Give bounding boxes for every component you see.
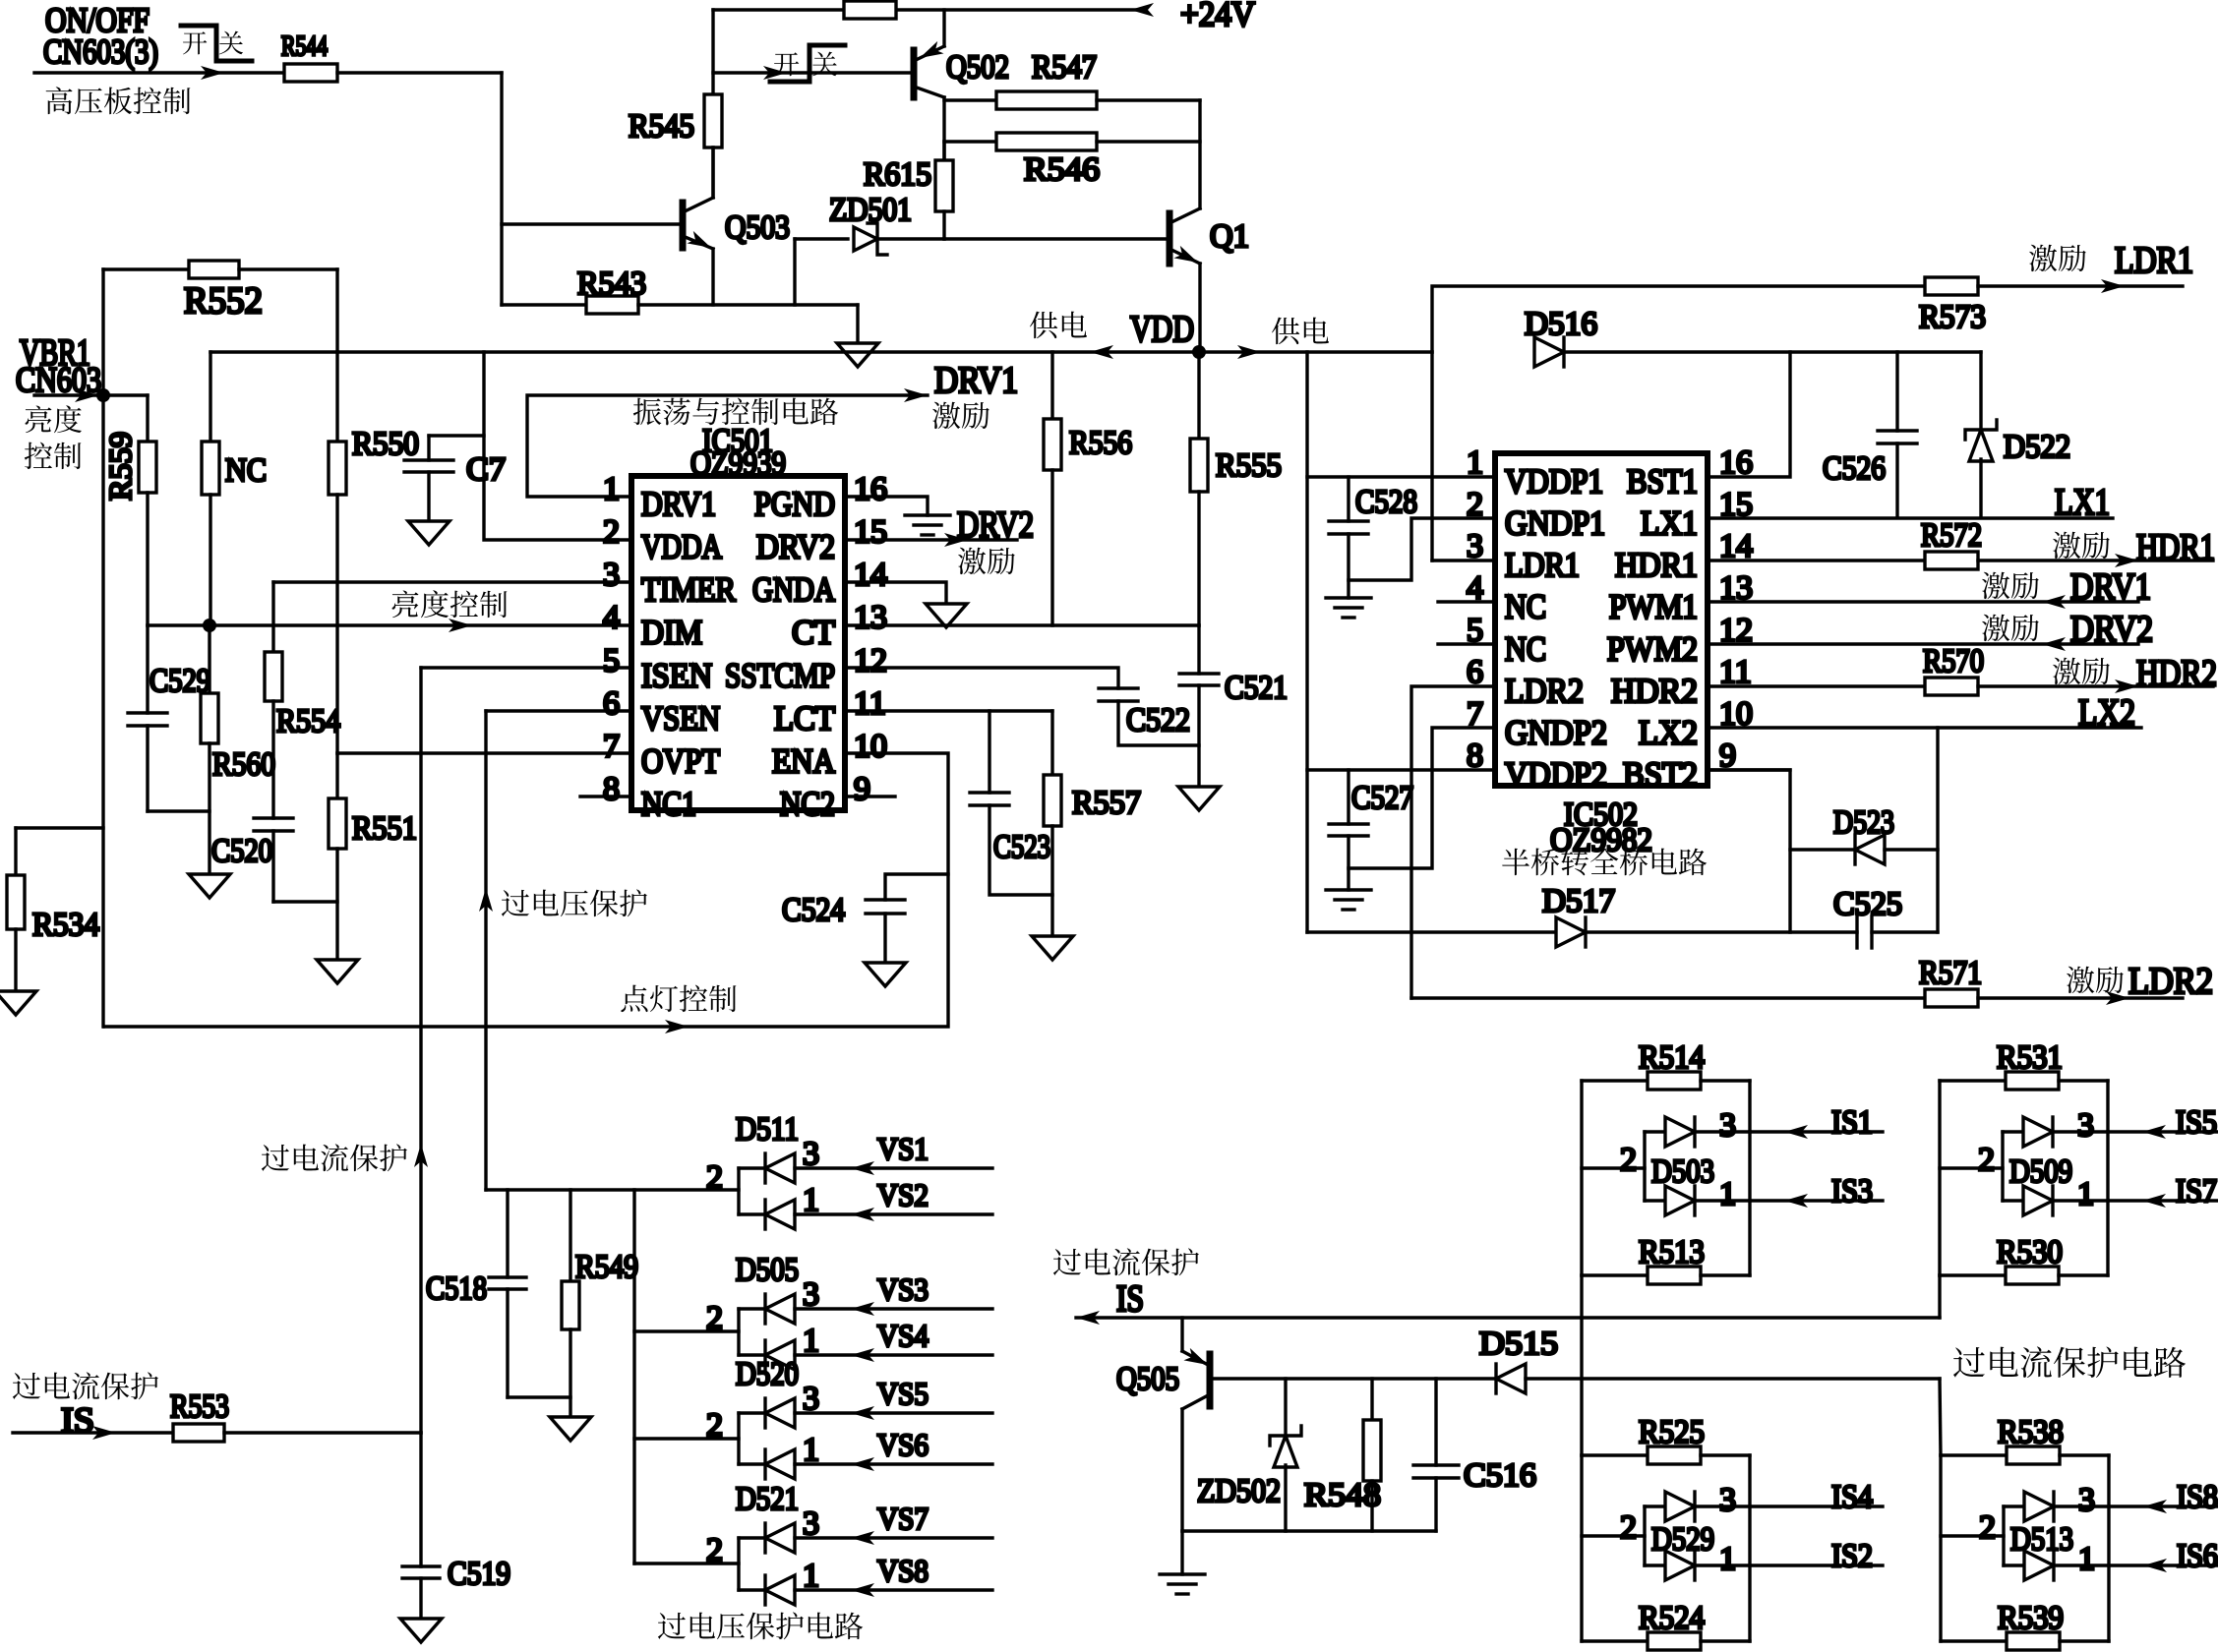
capacitor C521 — [1197, 625, 1200, 674]
svg-text:C524: C524 — [782, 892, 845, 928]
wire: PWM2 DRV2 input — [1708, 642, 2138, 645]
svg-text:CN603: CN603 — [16, 360, 101, 399]
resistor R559 — [146, 395, 149, 442]
ground (C524) — [865, 963, 906, 986]
wire: supply to VDDP1/VDDP2 — [1305, 352, 1308, 932]
IC box IC502 OZ9982 — [1495, 453, 1708, 786]
net 激励 LDR1 — [2029, 245, 2057, 271]
svg-text:NC: NC — [1505, 588, 1546, 626]
svg-text:R534: R534 — [32, 907, 99, 943]
resistor NC — [209, 352, 211, 442]
resistor R524 — [1582, 1639, 1648, 1642]
ground (R551) — [317, 960, 358, 983]
wire: ISEN down — [421, 666, 631, 669]
svg-text:D521: D521 — [736, 1481, 799, 1517]
pin5 NC stub — [1438, 642, 1495, 645]
svg-text:BST2: BST2 — [1623, 755, 1698, 794]
svg-text:GNDA: GNDA — [752, 570, 836, 609]
svg-text:R543: R543 — [577, 265, 646, 302]
svg-text:16: 16 — [854, 471, 887, 507]
svg-text:IS7: IS7 — [2176, 1173, 2217, 1209]
wire: DRV2 output — [845, 538, 1017, 541]
svg-text:GNDP2: GNDP2 — [1505, 713, 1607, 751]
svg-text:VDD: VDD — [1130, 309, 1194, 350]
svg-text:R553: R553 — [170, 1388, 229, 1425]
svg-text:2: 2 — [603, 514, 620, 551]
svg-text:VS4: VS4 — [877, 1318, 929, 1353]
ground (R557/C523) — [1032, 936, 1073, 960]
pin 9 NC2 stub — [845, 795, 895, 797]
wire: Q502 base feed — [711, 10, 714, 94]
resistor R560 — [208, 625, 210, 693]
transistor Q502 (PNP) — [911, 50, 918, 97]
svg-text:R545: R545 — [629, 108, 694, 145]
svg-text:11: 11 — [854, 685, 886, 722]
wire: VDDA to rail — [484, 352, 631, 540]
transistor Q1 (NPN) — [944, 237, 1169, 240]
wire: LDR1 pin3 — [1432, 559, 1495, 561]
svg-text:ZD502: ZD502 — [1197, 1473, 1281, 1509]
svg-text:14: 14 — [854, 557, 887, 593]
svg-text:R556: R556 — [1069, 425, 1132, 461]
svg-text:3: 3 — [603, 557, 620, 593]
svg-text:IS3: IS3 — [1831, 1173, 1873, 1209]
dual diode D509 — [1940, 1166, 2003, 1169]
net label 亮度控制 (DIM) — [392, 591, 419, 619]
capacitor C522 — [1099, 686, 1138, 689]
ground (C519) — [400, 1619, 442, 1642]
svg-text:IS: IS — [1116, 1278, 1144, 1320]
diode D515 — [1496, 1364, 1526, 1393]
pin4 NC stub — [1438, 600, 1495, 603]
svg-text:7: 7 — [603, 728, 620, 764]
svg-text:CT: CT — [792, 614, 835, 652]
net IS1 — [1750, 1130, 1883, 1133]
resistor R549 — [569, 1190, 571, 1281]
resistor R534 — [7, 875, 25, 929]
resistor R546 — [944, 140, 996, 143]
svg-text:NC: NC — [1505, 629, 1546, 668]
wire: GNDA to ground — [845, 582, 946, 604]
resistor R548 — [1370, 1379, 1373, 1420]
svg-text:R554: R554 — [276, 703, 340, 739]
svg-text:10: 10 — [854, 728, 887, 764]
svg-text:D529: D529 — [1651, 1521, 1714, 1558]
svg-text:R531: R531 — [1997, 1039, 2063, 1076]
resistor R539 — [1941, 1639, 2007, 1642]
svg-text:2: 2 — [706, 1159, 723, 1196]
svg-text:3: 3 — [1719, 1107, 1736, 1144]
wire: DIM line — [148, 623, 631, 626]
resistor R557 — [1050, 711, 1053, 775]
svg-text:15: 15 — [854, 514, 887, 551]
wire: GNDP2 to ground — [1349, 728, 1495, 868]
svg-text:DRV2: DRV2 — [2070, 609, 2153, 650]
svg-text:C527: C527 — [1351, 780, 1413, 816]
svg-text:D523: D523 — [1833, 804, 1894, 841]
svg-text:1: 1 — [2077, 1176, 2094, 1212]
dual diode D511 — [737, 1168, 740, 1214]
wire: LDR1 pin3 up — [1430, 352, 1433, 560]
svg-text:DRV1: DRV1 — [2070, 566, 2151, 608]
resistor R531 — [1940, 1079, 2006, 1082]
svg-text:D516: D516 — [1525, 306, 1597, 342]
resistor R525 — [1582, 1453, 1648, 1456]
svg-text:D522: D522 — [2004, 429, 2070, 465]
wire: ON/OFF input line — [34, 71, 284, 74]
svg-text:R552: R552 — [184, 280, 263, 322]
svg-text:LX1: LX1 — [2055, 482, 2110, 523]
capacitor C525 — [1855, 916, 1858, 948]
svg-text:4: 4 — [603, 600, 620, 636]
svg-text:C522: C522 — [1126, 702, 1190, 738]
svg-text:DIM: DIM — [641, 614, 702, 652]
svg-text:DRV2: DRV2 — [756, 528, 835, 566]
svg-text:D515: D515 — [1479, 1326, 1558, 1362]
svg-text:SSTCMP: SSTCMP — [725, 656, 835, 694]
svg-text:D520: D520 — [736, 1356, 799, 1392]
diode D517 — [1307, 930, 1556, 933]
svg-text:1: 1 — [803, 1182, 819, 1218]
resistor R554 — [271, 582, 274, 652]
wire: R573 LDR1 output — [1432, 286, 1925, 352]
net label 供电 (right) — [1272, 318, 1299, 345]
svg-text:R547: R547 — [1032, 49, 1097, 86]
svg-text:NC1: NC1 — [641, 785, 696, 823]
svg-text:R548: R548 — [1304, 1477, 1381, 1513]
net label 供电 (left) — [1030, 312, 1057, 339]
svg-text:TIMER: TIMER — [641, 570, 737, 609]
svg-text:R538: R538 — [1998, 1414, 2064, 1450]
net IS7 — [2108, 1199, 2218, 1202]
wire: OVPT to R550/R551 — [337, 751, 631, 754]
svg-text:3: 3 — [803, 1136, 819, 1172]
svg-text:R615: R615 — [864, 156, 931, 193]
wire: R544 to Q503 base column — [337, 71, 502, 74]
resistor R573 — [1925, 277, 1978, 295]
svg-text:BST1: BST1 — [1627, 462, 1698, 501]
wire: PWM1 DRV1 input — [1708, 600, 2138, 603]
svg-text:+24V: +24V — [1180, 0, 1255, 33]
zener ZD502 — [1284, 1379, 1287, 1436]
svg-text:1: 1 — [803, 1558, 819, 1594]
svg-text:HDR2: HDR2 — [2136, 653, 2217, 694]
wire: PGND to ground — [845, 497, 928, 515]
IC op-amp box IC501 OZ9939 — [631, 476, 845, 810]
wire: OVP diode feed — [632, 1190, 635, 1563]
svg-text:DRV1: DRV1 — [934, 360, 1018, 401]
svg-text:C516: C516 — [1464, 1457, 1536, 1494]
svg-text:LDR2: LDR2 — [2128, 961, 2213, 1002]
resistor R513 — [1582, 1273, 1648, 1276]
svg-text:IS: IS — [61, 1400, 94, 1440]
svg-text:R573: R573 — [1919, 299, 1986, 335]
capacitor C518 — [506, 1190, 509, 1277]
svg-text:12: 12 — [854, 642, 887, 678]
svg-text:R572: R572 — [1921, 517, 1982, 554]
svg-text:C525: C525 — [1833, 886, 1902, 922]
svg-text:NC2: NC2 — [780, 785, 835, 823]
svg-text:R513: R513 — [1639, 1234, 1705, 1270]
svg-text:C519: C519 — [448, 1556, 510, 1592]
capacitor C519 — [419, 1433, 422, 1566]
svg-text:VS2: VS2 — [877, 1177, 929, 1212]
svg-text:ENA: ENA — [772, 741, 836, 780]
svg-text:R557: R557 — [1072, 785, 1141, 821]
label 过电压保护电路 — [658, 1613, 686, 1639]
svg-text:VDDA: VDDA — [641, 528, 723, 566]
svg-text:IS5: IS5 — [2176, 1104, 2217, 1141]
ground (GNDA) — [926, 604, 967, 627]
svg-text:IS4: IS4 — [1831, 1479, 1873, 1515]
capacitor C528 — [1347, 477, 1349, 521]
svg-text:1: 1 — [1719, 1541, 1736, 1577]
svg-text:LCT: LCT — [774, 699, 835, 737]
svg-text:6: 6 — [603, 685, 620, 722]
svg-text:C528: C528 — [1355, 484, 1417, 520]
resistor R556 — [1050, 352, 1053, 419]
dual diode D503 — [1582, 1166, 1645, 1169]
svg-text:Q503: Q503 — [725, 209, 790, 246]
switch waveform symbol 开关 (mid) — [774, 52, 799, 76]
wire: LX2 — [1708, 726, 2141, 729]
resistor R551 — [335, 753, 338, 798]
switch waveform symbol 开关 (top) — [183, 31, 207, 54]
wire: SSTCMP to C522 — [845, 668, 1118, 688]
dual diode D521 — [737, 1538, 740, 1590]
svg-text:C518: C518 — [426, 1270, 487, 1307]
svg-text:Q1: Q1 — [1210, 218, 1249, 255]
net 过电流保护 IS — [1053, 1249, 1081, 1275]
label 过电流保护电路 — [1953, 1347, 1985, 1378]
wire: IS bus — [1076, 1316, 1940, 1319]
svg-text:VDDP2: VDDP2 — [1505, 755, 1607, 794]
net 过电流保护 (ISEN) — [414, 1144, 428, 1167]
wire: LDR2 to R571 — [1411, 686, 1495, 998]
svg-text:R530: R530 — [1997, 1234, 2063, 1270]
svg-text:VDDP1: VDDP1 — [1505, 462, 1603, 501]
svg-text:LX2: LX2 — [1639, 713, 1698, 751]
svg-text:C523: C523 — [993, 829, 1050, 865]
resistor R543 — [502, 303, 586, 306]
wire: IS input R553 — [13, 1431, 173, 1434]
svg-text:IS8: IS8 — [2177, 1479, 2218, 1515]
net IS4 — [1750, 1504, 1883, 1507]
svg-text:8: 8 — [603, 771, 620, 807]
svg-text:5: 5 — [603, 642, 620, 678]
net label 高压板控制 — [46, 87, 73, 114]
svg-text:VS1: VS1 — [877, 1131, 929, 1166]
pin 8 NC1 stub — [580, 795, 631, 797]
svg-text:ZD501: ZD501 — [829, 192, 912, 228]
ground (C528) — [1326, 596, 1371, 599]
wire: CT line — [845, 623, 1199, 626]
capacitor C523 — [988, 711, 990, 793]
dual diode D513 — [1941, 1534, 2004, 1537]
svg-text:3: 3 — [2077, 1107, 2094, 1144]
svg-text:LX1: LX1 — [1641, 504, 1698, 543]
svg-text:Q505: Q505 — [1116, 1361, 1179, 1397]
wire: VDD supply rail — [210, 350, 1432, 353]
wire: GNDP1 to ground — [1349, 518, 1495, 580]
resistor R544 — [284, 64, 337, 82]
svg-text:Q502: Q502 — [946, 49, 1009, 86]
svg-text:R550: R550 — [352, 426, 419, 462]
svg-text:C7: C7 — [466, 451, 506, 488]
svg-text:NC: NC — [225, 452, 267, 489]
svg-text:D505: D505 — [736, 1252, 799, 1288]
svg-text:R549: R549 — [575, 1249, 638, 1285]
svg-text:2: 2 — [706, 1300, 723, 1336]
dual diode D505 — [737, 1309, 740, 1355]
ground (Q505) — [1160, 1572, 1205, 1575]
svg-text:2: 2 — [1979, 1509, 1996, 1546]
svg-text:HDR1: HDR1 — [2136, 527, 2215, 568]
svg-text:3: 3 — [1719, 1482, 1736, 1518]
svg-text:LDR2: LDR2 — [1505, 672, 1584, 710]
wire: BST2 — [1708, 768, 1790, 771]
svg-text:R546: R546 — [1024, 151, 1100, 188]
capacitor C527 — [1347, 770, 1349, 824]
svg-text:IS2: IS2 — [1831, 1538, 1873, 1574]
label 半桥转全桥电路 — [1502, 849, 1529, 875]
ground (R534) — [0, 991, 36, 1015]
svg-text:VS6: VS6 — [877, 1427, 929, 1462]
svg-text:R559: R559 — [102, 432, 138, 501]
net IS8 — [2109, 1504, 2218, 1507]
net 过电流保护 IS (input) — [13, 1373, 40, 1399]
capacitor C529 — [146, 625, 149, 713]
transistor Q503 (NPN) — [680, 203, 687, 248]
resistor R514 — [1582, 1079, 1648, 1082]
svg-text:LX2: LX2 — [2078, 692, 2135, 734]
svg-text:C520: C520 — [211, 833, 272, 869]
capacitor C524 — [885, 874, 948, 900]
svg-text:R514: R514 — [1639, 1039, 1705, 1076]
svg-text:R551: R551 — [352, 810, 417, 847]
svg-text:VS8: VS8 — [877, 1553, 929, 1588]
svg-text:2: 2 — [1620, 1509, 1637, 1546]
svg-text:13: 13 — [854, 600, 887, 636]
svg-text:OVPT: OVPT — [641, 741, 720, 780]
net 过电压保护 (VSEN) — [479, 888, 493, 912]
svg-text:R571: R571 — [1919, 955, 1982, 991]
wire: DRV1 output — [527, 395, 928, 497]
diode D523 — [1708, 770, 1790, 932]
wire: R534 branch — [16, 826, 103, 829]
dual diode D529 — [1582, 1534, 1645, 1537]
svg-text:HDR2: HDR2 — [1611, 672, 1698, 710]
svg-text:3: 3 — [2078, 1482, 2095, 1518]
svg-text:1: 1 — [803, 1432, 819, 1468]
svg-text:R555: R555 — [1216, 447, 1282, 484]
net label 亮度控制 (left) — [26, 406, 52, 434]
svg-text:3: 3 — [803, 1381, 819, 1417]
net label 点灯控制 — [621, 985, 647, 1012]
svg-text:VS5: VS5 — [877, 1376, 929, 1411]
svg-text:9: 9 — [854, 771, 870, 807]
resistor R571, LDR2 output — [1411, 996, 1925, 999]
resistor R572, HDR1 — [1708, 559, 1925, 561]
wire: VBR1 node down — [101, 395, 104, 1027]
svg-text:ISEN: ISEN — [641, 656, 712, 694]
svg-text:C521: C521 — [1225, 670, 1288, 706]
wire: LCT line — [845, 709, 1052, 712]
label 振荡与控制电路 — [633, 398, 662, 426]
ground (C521) — [1178, 787, 1220, 810]
svg-text:1: 1 — [803, 1323, 819, 1359]
svg-text:GNDP1: GNDP1 — [1505, 504, 1605, 543]
svg-text:VS7: VS7 — [877, 1501, 929, 1536]
svg-text:1: 1 — [1719, 1176, 1736, 1212]
capacitor C526 — [1895, 352, 1898, 431]
svg-text:3: 3 — [803, 1276, 819, 1313]
svg-text:R524: R524 — [1639, 1600, 1705, 1636]
svg-text:LDR1: LDR1 — [1505, 546, 1580, 584]
wire: VSEN OVP bus — [486, 1188, 739, 1191]
svg-text:R544: R544 — [281, 31, 328, 62]
svg-text:VS3: VS3 — [877, 1271, 929, 1307]
svg-text:IS6: IS6 — [2177, 1538, 2218, 1574]
svg-text:2: 2 — [706, 1407, 723, 1444]
svg-text:PWM1: PWM1 — [1609, 588, 1698, 626]
zener ZD501 — [793, 239, 796, 305]
ground (C7) — [408, 521, 450, 545]
resistor R552 — [103, 267, 189, 270]
resistor R553 — [173, 1424, 224, 1442]
resistor R530 — [1940, 1273, 2006, 1276]
svg-text:CN603(3): CN603(3) — [43, 32, 158, 71]
net IS2 — [1750, 1563, 1883, 1566]
svg-text:PWM2: PWM2 — [1607, 629, 1698, 668]
svg-text:D509: D509 — [2009, 1153, 2072, 1190]
capacitor C520 — [254, 816, 293, 819]
capacitor C7 — [429, 434, 484, 437]
ground (below R543 line) — [856, 305, 859, 343]
svg-text:OZ9939: OZ9939 — [690, 445, 786, 482]
resistor R538 — [1941, 1453, 2007, 1456]
zener D522 — [1979, 352, 1982, 430]
resistor R547 — [944, 98, 996, 101]
svg-text:D517: D517 — [1542, 883, 1615, 919]
diode D516 — [1534, 337, 1564, 367]
svg-text:R560: R560 — [212, 746, 275, 783]
capacitor C516 — [1434, 1379, 1437, 1465]
ground (R560) — [189, 874, 230, 898]
resistor R550 — [335, 352, 338, 442]
wire: Q505 base line — [1212, 1377, 1496, 1380]
svg-text:3: 3 — [803, 1505, 819, 1542]
svg-text:LDR1: LDR1 — [2115, 240, 2193, 281]
svg-text:D513: D513 — [2010, 1521, 2073, 1558]
svg-text:IS1: IS1 — [1831, 1104, 1873, 1141]
wire: BST1 — [1708, 352, 1790, 477]
wire: Q505 bottom bus — [1182, 1529, 1436, 1532]
resistor (unlabeled) top — [844, 1, 896, 19]
wire: VSEN down — [486, 709, 631, 712]
svg-text:PGND: PGND — [754, 485, 835, 523]
svg-text:1: 1 — [603, 471, 620, 507]
net 激励 (DRV1) — [932, 402, 960, 429]
resistor R555 — [1197, 352, 1200, 439]
wire: +24V top rail — [713, 8, 844, 11]
net IS5 — [2108, 1130, 2218, 1133]
transistor Q505 (PNP) — [1180, 1318, 1183, 1351]
net 激励 (DRV2) — [958, 548, 986, 574]
svg-text:R539: R539 — [1998, 1600, 2064, 1636]
node VDD — [1192, 345, 1206, 359]
wire: LX1 — [1708, 516, 2113, 519]
